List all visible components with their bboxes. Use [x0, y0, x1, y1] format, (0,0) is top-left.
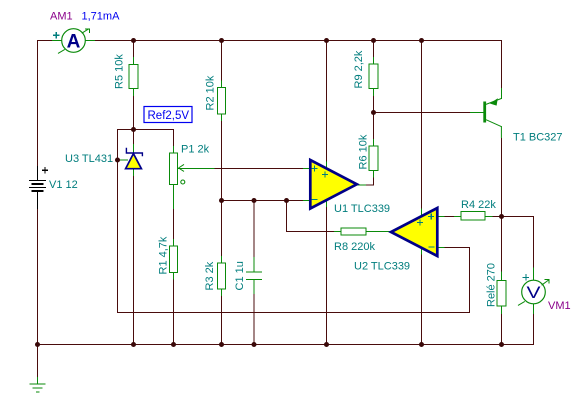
wire U1 output to R6 — [366, 178, 374, 186]
wire R1 bottom — [173, 280, 175, 345]
wire P1 bottom to R1 — [173, 209, 175, 239]
capacitor C1 — [246, 272, 262, 280]
pin P1 top — [173, 146, 175, 153]
wire left rail upper — [37, 40, 39, 166]
pin U2 supply top — [421, 209, 423, 217]
shunt regulator U3 TL431 — [126, 148, 143, 169]
wire wiper to U1 plus — [215, 168, 304, 170]
svg-text:A: A — [67, 32, 81, 53]
resistor R8 — [341, 228, 366, 235]
wire C1 bottom — [253, 294, 255, 344]
pin U3 anode — [133, 169, 135, 177]
pin VM1 bottom — [533, 304, 535, 314]
wire relay bottom — [501, 314, 503, 344]
wire top rail left stub — [37, 40, 52, 42]
pin U1 minus input — [303, 200, 311, 202]
svg-text:R6 10k: R6 10k — [358, 134, 370, 169]
pin U3 ref — [118, 159, 128, 161]
pin R4 right — [485, 216, 493, 218]
wire P1 top — [173, 129, 175, 146]
pin R9 bottom — [373, 89, 375, 97]
wire base node — [374, 112, 471, 114]
pin AM1 right — [85, 40, 95, 42]
resistor R4 — [461, 212, 485, 221]
pin ground stub — [37, 377, 39, 384]
ground — [30, 384, 46, 392]
pin C1 top — [253, 257, 255, 272]
pin T1 base — [470, 112, 484, 114]
resistor R6 — [369, 146, 378, 171]
pin U2 supply bottom — [421, 248, 423, 255]
svg-text:V: V — [527, 283, 542, 302]
svg-text:VM1: VM1 — [548, 300, 571, 312]
svg-text:U2 TLC339: U2 TLC339 — [354, 261, 410, 273]
wire collector down — [501, 138, 503, 216]
wire R8 drop — [287, 200, 335, 232]
wire loop up to U2 minus — [469, 247, 471, 313]
svg-text:AM1: AM1 — [50, 11, 73, 23]
pin U1 supply bottom — [326, 200, 328, 207]
wire left loop vertical — [117, 129, 119, 312]
pin R1 bottom — [173, 273, 175, 280]
pin C1 bottom — [253, 280, 255, 295]
pin R5 bottom — [133, 89, 135, 97]
pin AM1 left — [52, 40, 62, 42]
ammeter AM1 — [53, 28, 90, 53]
transistor T1 BC327 — [483, 98, 501, 138]
pin R8 left — [334, 231, 341, 233]
wire R4 right to VM1 corner — [493, 216, 535, 218]
pin relay top — [501, 272, 503, 281]
svg-text:R4 22k: R4 22k — [461, 199, 496, 211]
op-amp U2 TLC339 — [391, 208, 437, 256]
wire R4 left mid — [445, 216, 455, 218]
wire VM1 top — [533, 216, 535, 268]
wire TL431 anode down — [133, 176, 135, 344]
svg-text:U1 TLC339: U1 TLC339 — [334, 203, 390, 215]
wire R2 top — [221, 40, 223, 81]
svg-text:R2 10k: R2 10k — [205, 75, 217, 110]
svg-text:P1 2k: P1 2k — [181, 144, 210, 156]
pin VM1 top — [533, 268, 535, 281]
wire U2 supply top — [421, 40, 423, 209]
pin R3 top — [221, 256, 223, 263]
wire top rail — [95, 40, 502, 42]
pin R8 right to U2 output — [366, 231, 391, 233]
wire R5 bottom to ref node — [133, 96, 135, 129]
pin relay bottom — [501, 306, 503, 314]
wire R3 bottom — [221, 296, 223, 344]
pin R2 bottom — [221, 114, 223, 121]
pin T1 emitter — [501, 88, 503, 99]
op-amp U1 TLC339 — [310, 160, 357, 209]
pin R1 top — [173, 239, 175, 246]
pin R3 bottom — [221, 289, 223, 296]
node Ref2,5V label box — [144, 107, 192, 123]
wire U1 supply bottom — [326, 207, 328, 344]
wire U1 supply top — [326, 40, 328, 162]
resistor R3 — [217, 263, 225, 289]
wire ref node horizontal — [117, 129, 174, 131]
svg-text:V1 12: V1 12 — [49, 179, 78, 191]
potentiometer P1 — [170, 153, 185, 184]
resistor R5 — [129, 65, 138, 89]
svg-text:C1 1u: C1 1u — [234, 261, 246, 290]
wire ground drop — [37, 344, 39, 377]
svg-text:Relé 270: Relé 270 — [486, 263, 498, 307]
pin R5 top — [133, 57, 135, 65]
wire emitter top — [501, 40, 503, 88]
wire R2 bottom to R3 top — [221, 121, 223, 256]
wire U2 minus horizontal — [445, 247, 471, 249]
wire mid rail to U1 minus — [222, 200, 304, 202]
svg-text:Ref2,5V: Ref2,5V — [148, 110, 190, 122]
pin P1 bottom — [173, 185, 175, 210]
pin R9 top — [373, 57, 375, 64]
svg-text:R8 220k: R8 220k — [334, 241, 375, 253]
pin R2 top — [221, 81, 223, 88]
pin U2 minus input — [437, 247, 445, 249]
pin P1 wiper wire — [178, 168, 215, 170]
wire U2 supply bottom — [421, 255, 423, 345]
pin R6 top — [373, 139, 375, 146]
wire R5 top — [133, 40, 135, 57]
voltmeter VM1 — [518, 274, 550, 305]
wire R6 to R9 — [373, 96, 375, 139]
resistor R2 — [217, 88, 225, 115]
wire C1 top — [253, 200, 255, 257]
wire relay top — [501, 216, 503, 272]
svg-text:1,71mA: 1,71mA — [82, 11, 121, 23]
wire R9 top — [373, 40, 375, 57]
svg-text:T1 BC327: T1 BC327 — [513, 132, 563, 144]
wire VM1 bottom — [533, 314, 535, 344]
svg-text:R3 2k: R3 2k — [204, 261, 216, 290]
pin R6 bottom — [373, 171, 375, 178]
svg-text:R1 4,7k: R1 4,7k — [158, 236, 170, 274]
pin R4 left — [454, 216, 461, 218]
pin U1 supply top — [326, 162, 328, 170]
resistor Rele — [497, 281, 506, 307]
battery V1 — [29, 166, 48, 209]
wire left rail lower — [37, 209, 39, 344]
wire bottom rail — [37, 344, 534, 346]
pin U2 plus input — [437, 216, 445, 218]
wire TL431 cathode top — [133, 129, 135, 144]
pin U1 output — [357, 184, 367, 186]
resistor R1 — [169, 246, 177, 273]
resistor R9 — [369, 64, 378, 89]
pin U3 cathode — [133, 144, 135, 153]
svg-text:R9 2,2k: R9 2,2k — [353, 50, 365, 88]
svg-text:R5 10k: R5 10k — [114, 54, 126, 89]
wire bottom loop horizontal — [117, 312, 470, 314]
pin U1 plus input — [303, 168, 311, 170]
svg-text:U3 TL431: U3 TL431 — [65, 153, 113, 165]
